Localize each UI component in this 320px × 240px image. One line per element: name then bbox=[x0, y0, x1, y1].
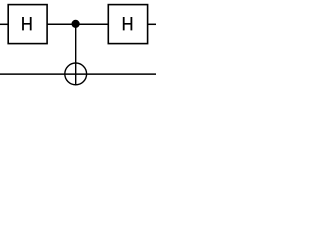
CNOT control dot bbox=[72, 20, 80, 28]
wire q1 bbox=[0, 73, 156, 75]
H gate U2 box bbox=[108, 5, 147, 44]
H gate U1 box bbox=[8, 5, 47, 44]
H gate U2 label bbox=[123, 17, 133, 30]
wire q0 right stub bbox=[147, 23, 156, 25]
wire q0 middle segment bbox=[47, 23, 110, 25]
CNOT target circle bbox=[65, 63, 87, 85]
wire q0 left stub bbox=[0, 23, 9, 25]
wire CNOT control-target vertical bbox=[75, 23, 77, 85]
H gate U1 label bbox=[22, 17, 31, 30]
